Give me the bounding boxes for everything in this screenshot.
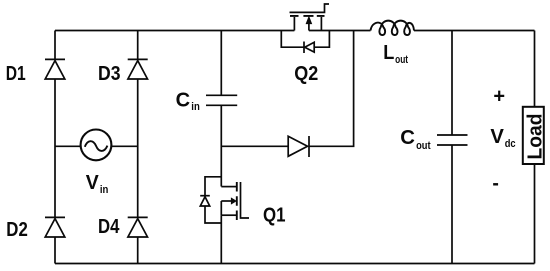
- transistor Q2: [290, 4, 330, 31]
- wire freewheeling diode horizontal and riser: [221, 31, 353, 147]
- svg-text:C: C: [400, 127, 415, 149]
- svg-text:D2: D2: [6, 219, 28, 241]
- wire Cin branch vertical: [220, 31, 222, 187]
- AC source Vin: [81, 130, 112, 161]
- freewheeling diode D5: [288, 136, 309, 157]
- body diode of Q2: [281, 31, 329, 54]
- diode D2: [45, 217, 65, 237]
- svg-text:out: out: [416, 140, 431, 152]
- diode D3: [128, 59, 148, 79]
- svg-text:D3: D3: [98, 63, 121, 85]
- inductor Lout: [371, 21, 415, 35]
- capacitor Cout: [437, 31, 468, 264]
- diode D4: [128, 217, 148, 237]
- wire top rail left: [55, 30, 294, 32]
- svg-text:out: out: [395, 54, 408, 66]
- svg-text:+: +: [493, 85, 505, 107]
- svg-text:in: in: [100, 184, 109, 196]
- diode D1: [45, 59, 65, 79]
- svg-text:dc: dc: [505, 138, 516, 150]
- load box: [523, 107, 544, 164]
- svg-text:Load: Load: [524, 114, 546, 160]
- wire bottom rail: [55, 263, 535, 265]
- capacitor Cin: [206, 95, 237, 105]
- load box wires: [534, 31, 536, 264]
- transistor Q1: [221, 182, 249, 264]
- wire top rail right: [309, 30, 535, 32]
- svg-text:V: V: [490, 126, 504, 148]
- wire left branch (D1/D2 leg): [54, 31, 56, 264]
- svg-text:Q2: Q2: [294, 63, 318, 85]
- svg-text:Q1: Q1: [263, 205, 286, 227]
- wire Vin horizontal: [55, 145, 138, 147]
- svg-text:in: in: [191, 101, 200, 113]
- wire second branch (D3/D4 leg): [137, 31, 139, 264]
- svg-text:-: -: [492, 172, 499, 194]
- svg-text:L: L: [383, 42, 394, 64]
- svg-text:D4: D4: [98, 216, 120, 238]
- svg-text:D1: D1: [6, 63, 26, 85]
- svg-text:V: V: [86, 172, 100, 194]
- body diode of Q1: [200, 177, 221, 223]
- svg-text:C: C: [176, 89, 191, 111]
